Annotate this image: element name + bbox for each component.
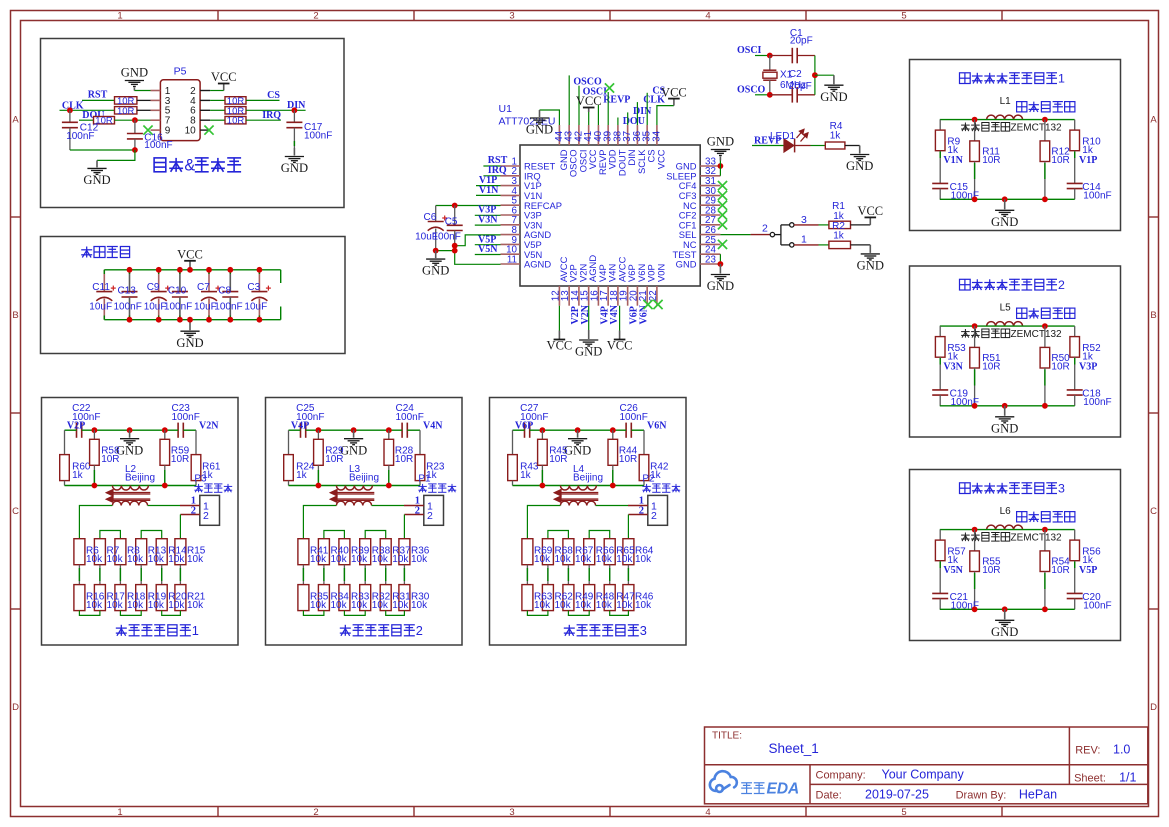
junction (top rail) [177,267,183,273]
resistor R30 10k body [399,585,410,611]
resistor R38 10k body [360,539,371,565]
svg-text:10k: 10k [86,554,103,565]
svg-text:9: 9 [165,126,171,137]
wire pin2 [210,90,224,92]
svg-text:1k: 1k [72,470,84,481]
svg-text:A: A [12,115,19,126]
block title 交流电流采样通道2 [960,279,971,290]
resistor R19 10k body [136,585,147,611]
U1 pin 41 (VCC) [588,125,590,145]
junction C5 top [452,203,458,209]
wire pin2 down [179,515,181,539]
svg-text:Drawn By:: Drawn By: [956,790,1007,802]
svg-text:GND: GND [575,345,602,359]
svg-text:GND: GND [83,173,110,187]
svg-text:GND: GND [707,134,734,148]
resistor R66 10k body [584,539,595,565]
svg-text:3: 3 [1058,482,1065,496]
svg-text:34: 34 [651,130,662,141]
resistor R60 1k [64,430,66,454]
svg-text:B: B [12,310,18,321]
wire bottom rail [104,319,280,321]
wire top link R4-R5 [589,531,610,539]
wire column 3 mid [119,565,121,585]
svg-text:ZEMCT132: ZEMCT132 [1011,122,1063,133]
U1 pin 14 (V2N) [578,286,580,306]
wire bottom link R3-R4 [568,611,589,616]
wire R1 to VCC [851,224,871,226]
resistor R61 1k [195,430,197,454]
wire column 6 mid [179,565,181,585]
junction bottom right [1042,606,1048,612]
svg-text:1: 1 [1058,72,1065,86]
svg-text:10uF: 10uF [89,302,112,313]
wire top link R4-R5 [141,531,162,539]
wire bottom link R5-R6 [162,611,181,616]
resistor R18 10k body [115,585,126,611]
no-connect pin21 [643,300,652,309]
resistor R20 10k body [156,585,167,611]
svg-text:V6N: V6N [647,421,667,432]
U1 pin 4 (V1N) [501,194,521,196]
resistor R68 10k body [542,539,553,565]
svg-text:Sheet:: Sheet: [1074,773,1106,785]
junction top left [972,323,978,329]
junction top 2 [351,427,357,433]
svg-text:V1N: V1N [943,155,963,166]
svg-text:GND: GND [564,443,591,457]
wire top link R4-R5 [365,531,386,539]
U1 pin 2 (IRQ) [501,175,521,177]
wire REVP pin40 [597,105,599,125]
capacitor C14 100nF [1067,182,1083,184]
wire C12/C16 ground rail [70,149,135,151]
wire bottom link R1-R2 [303,611,324,616]
resistor R40 10k body [318,539,329,565]
wire bottom link R5-R6 [386,611,405,616]
wire gnd link [436,250,455,252]
junction lower 1 [92,483,98,489]
U1 pin 3 (V1P) [501,185,521,187]
resistor R48 10k body [584,585,595,611]
svg-text:10k: 10k [148,554,165,565]
resistor R1 1k [829,221,851,228]
svg-text:P5: P5 [174,66,187,78]
svg-text:10k: 10k [372,600,389,611]
svg-text:10k: 10k [372,554,389,565]
svg-text:1/1: 1/1 [1119,771,1136,785]
wire RST stub [483,165,500,167]
wire secondary left [527,506,560,539]
svg-text:10k: 10k [555,554,572,565]
wire CLK [60,109,115,111]
wire column 1 mid [526,565,528,585]
resistor R15 10k body [175,539,186,565]
junction CLK/C12 [67,107,73,113]
wire column 4 mid [588,565,590,585]
resistor R33 10k body [339,585,350,611]
resistor R2 1k [829,241,851,248]
svg-text:V3P: V3P [1079,361,1097,372]
svg-text:10k: 10k [351,554,368,565]
U1 pin 18 (AVCC) [617,286,619,306]
resistor R21 10k body [175,585,186,611]
wire IRQ stub [483,175,500,177]
resistor R62 10k body [542,585,553,611]
U1 pin 23 (GND) [700,263,720,265]
label 电压输入 [418,484,426,492]
no-connect pin9 [143,126,152,135]
block outline: AC current channel 2 [910,266,1121,437]
U1 pin 37 (DIN) [627,125,629,145]
svg-text:10R: 10R [395,454,413,465]
no-connect pin28 [718,210,727,219]
resistor R9 1k [939,120,941,131]
svg-text:10k: 10k [86,600,103,611]
resistor R47 10k body [604,585,615,611]
wire right bracket top [280,270,282,283]
wire secondary right [596,505,628,507]
junction (gnd stub) [187,317,193,323]
junction (bottom rail) [257,317,263,323]
resistor R29 10R [317,430,319,439]
svg-text:10k: 10k [555,600,572,611]
junction bottom center [1002,403,1008,409]
svg-text:GND: GND [991,421,1018,435]
resistor R28 10R [388,430,390,439]
svg-text:22: 22 [648,290,659,301]
U1 pin 8 (AGND) [501,234,521,236]
wire bottom link R3-R4 [120,611,141,616]
ground (lower left) [96,160,98,167]
ground (channel 3) [1004,609,1006,619]
svg-text:10R: 10R [982,361,1000,372]
svg-text:DOU: DOU [623,116,645,127]
svg-text:10k: 10k [635,600,652,611]
svg-text:C: C [12,506,19,517]
wire bottom rail [940,405,1075,407]
wire RST [82,99,115,101]
wire AGND pin8 [455,235,501,246]
wire DIN pin37 [627,112,629,125]
svg-text:2: 2 [203,510,209,522]
wire jumper3 to R1 [794,224,819,226]
wire pin24 to pin23 [719,254,721,264]
ground (voltage channel 3) [577,430,579,438]
wire bottom link R5-R6 [610,611,629,616]
svg-text:Beijing: Beijing [349,472,379,483]
svg-text:V1N: V1N [479,185,499,196]
resistor 10R (CLK row) [115,107,137,114]
resistor R31 10k body [380,585,391,611]
U1 pin 21 (V0P) [646,286,648,306]
wire column 2 mid [99,565,101,585]
wire top link R2-R3 [324,531,345,539]
ground (U1 pin15) [588,330,590,339]
svg-text:5: 5 [901,807,906,818]
wire REVP to LED [752,145,784,147]
wire AVCC pin12 [558,306,560,331]
U1 pin 10 (V5N) [501,253,521,255]
svg-text:VCC: VCC [661,85,687,99]
svg-text:100nF: 100nF [214,302,242,313]
svg-text:V3N: V3N [943,361,963,372]
svg-text:HePan: HePan [1019,788,1057,802]
junction lower 2 [610,483,616,489]
junction (bottom rail) [177,317,183,323]
ground (voltage channel 2) [353,430,355,438]
svg-text:1: 1 [192,623,199,638]
resistor R10 1k [1074,120,1076,131]
wire column 2 mid [547,565,549,585]
svg-text:100nF: 100nF [144,140,172,151]
block outline: AC current channel 1 [910,60,1121,231]
svg-text:4: 4 [705,807,710,818]
wire top link R2-R3 [100,531,121,539]
resistor R14 10k body [156,539,167,565]
wire OSCO pin43 [568,75,570,125]
junction bottom right [1042,403,1048,409]
junction (bottom rail) [127,317,133,323]
wire DOU [79,119,94,121]
svg-text:IRQ: IRQ [262,110,281,121]
wire crystal right [814,56,816,95]
svg-text:10k: 10k [411,600,428,611]
wire V1P stub [476,185,501,187]
svg-text:20pF: 20pF [789,81,812,92]
resistor R4 1k [825,142,845,149]
svg-text:10k: 10k [392,600,409,611]
svg-text:C7: C7 [197,282,210,293]
svg-text:100nF: 100nF [66,131,94,142]
resistor R13 10k body [136,539,147,565]
svg-text:10k: 10k [331,554,348,565]
U1 pin 16 (V4P) [597,286,599,306]
wire bottom link R3-R4 [344,611,365,616]
wire DOUT pin38 [617,118,619,126]
wire OSCO [755,94,770,96]
svg-text:3: 3 [801,214,807,226]
resistor 10R (CS row) [210,99,225,101]
svg-text:GND: GND [991,215,1018,229]
svg-text:GND: GND [422,264,449,278]
svg-text:LED1: LED1 [770,131,795,142]
vcc (U1 pin12) [558,331,560,340]
svg-text:C3: C3 [247,282,260,293]
resistor R36 10k body [399,539,410,565]
junction top 2 [575,427,581,433]
svg-text:Sheet_1: Sheet_1 [769,741,819,756]
U1 pin 13 (V2P) [568,286,570,306]
wire column 2 mid [323,565,325,585]
wire V5N stub [475,254,501,256]
junction ground rail [132,147,138,153]
U1 pin 32 (SLEEP) [700,175,720,177]
svg-text:V5N: V5N [943,565,963,576]
ground (U1 pin44) [539,110,541,117]
junction pin23 [718,261,724,267]
svg-text:100nF: 100nF [114,302,142,313]
svg-text:10k: 10k [168,600,185,611]
resistor R44 10R [612,430,614,439]
resistor R49 10k body [563,585,574,611]
capacitor C15 100nF [932,182,948,184]
resistor R23 1k [419,430,421,454]
block outline: voltage channel 3 [490,398,687,646]
resistor 10R (DIN row) [210,109,225,111]
ground (C17) [293,148,295,156]
svg-text:10k: 10k [127,600,144,611]
wire V3P stub [475,214,501,216]
resistor R57 1k [939,530,941,541]
junction (top rail) [156,267,162,273]
svg-text:P3: P3 [194,474,207,485]
svg-text:V5N: V5N [478,244,498,255]
svg-text:VCC: VCC [607,339,633,353]
capacitor C12 [69,110,71,122]
svg-text:Your Company: Your Company [882,768,965,782]
svg-text:&: & [184,157,195,175]
U1 pin 26 (SEL) [700,234,720,236]
junction bottom center [1002,196,1008,202]
resistor R42 1k [643,430,645,454]
svg-text:GND: GND [857,259,884,273]
U1 pin 29 (NC) [700,204,720,206]
resistor R41 10k body [298,539,309,565]
svg-text:10k: 10k [310,554,327,565]
capacitor C2 20pF [770,94,793,96]
label 交流互感器 [1017,308,1027,318]
svg-text:10k: 10k [411,554,428,565]
junction (top rail) [206,267,212,273]
U1 pin 39 (VDD) [607,125,609,145]
U1 pin 42 (OSCI) [578,125,580,145]
ground (R2) [869,245,871,253]
svg-text:Company:: Company: [816,770,866,782]
svg-text:5: 5 [901,10,906,21]
U1 pin 12 (AVCC) [558,286,560,306]
wire jumper1 to R2 [794,244,819,246]
block outline: power decoupling [41,237,346,354]
capacitor C20 100nF [1067,592,1083,594]
svg-text:2019-07-25: 2019-07-25 [865,788,929,802]
wire REFCAP [436,205,501,207]
U1 pin 7 (V3N) [501,224,521,226]
resistor R37 10k body [380,539,391,565]
U1 pin 28 (CF2) [700,214,720,216]
svg-text:23: 23 [705,254,716,265]
svg-text:GND: GND [820,90,847,104]
svg-text:GND: GND [991,625,1018,639]
U1 pin 1 (RESET) [501,165,521,167]
svg-text:100nF: 100nF [304,131,332,142]
U1 pin 34 (VCC) [656,125,658,145]
wire R4 to gnd [845,145,860,147]
resistor R67 10k body [563,539,574,565]
svg-text:C8: C8 [218,286,231,297]
svg-text:V4N: V4N [423,421,443,432]
svg-text:Beijing: Beijing [125,472,155,483]
svg-text:REVP: REVP [603,95,630,106]
junction lower 1 [540,483,546,489]
wire lower rail [289,485,421,487]
svg-text:GND: GND [340,443,367,457]
svg-text:V4N: V4N [609,304,620,324]
svg-text:100nF: 100nF [1083,191,1111,202]
ground (C6/C5) [435,251,437,259]
svg-text:VCC: VCC [655,149,666,169]
svg-text:2: 2 [415,505,420,516]
U1 pin 19 (V6P) [627,286,629,306]
svg-text:2: 2 [1058,278,1065,292]
label 电压输入 [642,484,650,492]
svg-text:Beijing: Beijing [573,472,603,483]
resistor 10R (DOU row) [94,117,115,124]
svg-text:100nF: 100nF [164,302,192,313]
svg-text:C2: C2 [789,69,802,80]
svg-text:10R: 10R [171,454,189,465]
resistor R59 10R [164,430,166,439]
resistor R51 10R [974,326,976,347]
svg-text:U1: U1 [499,103,513,115]
wire pin44 GND [540,110,560,125]
no-connect pin27 [718,220,727,229]
svg-text:4: 4 [705,10,710,21]
ground (decoupling) [189,320,191,331]
U1 pin 43 (OSCO) [568,125,570,145]
wire top rail mid [82,429,178,431]
capacitor C3 [258,270,260,292]
junction gnd link [452,248,458,254]
svg-text:3: 3 [640,623,647,638]
wire lower rail [65,485,197,487]
wire SEL [720,234,750,236]
capacitor C7 [208,270,210,292]
label 电流互感器ZEMCT132 [961,533,970,542]
wire OSCI [755,55,770,57]
capacitor C1 20pF [770,55,793,57]
resistor R39 10k body [339,539,350,565]
svg-text:10k: 10k [187,554,204,565]
ground (channel 2) [1004,406,1006,416]
capacitor C11 [103,270,105,292]
svg-text:2: 2 [762,223,768,235]
svg-text:D: D [12,702,19,713]
svg-text:VCC: VCC [177,248,203,262]
svg-text:10k: 10k [168,554,185,565]
ground (U1 pin33) [719,157,721,161]
connector P2 [648,495,668,525]
junction top 2 [127,427,133,433]
wire top rail [940,529,1075,531]
junction top 1 [540,427,546,433]
wire RST to pin3 [137,99,151,101]
wire top rail mid [306,429,402,431]
block outline: AC current channel 3 [910,470,1121,641]
svg-text:11: 11 [507,254,517,265]
svg-text:100nF: 100nF [396,412,424,423]
junction C16 top [132,117,138,123]
junction (bottom rail) [156,317,162,323]
resistor R50 10R [1044,326,1046,347]
U1 pin 24 (TEST) [700,253,720,255]
svg-text:10k: 10k [635,554,652,565]
junction bottom left [972,196,978,202]
svg-text:100nF: 100nF [172,412,200,423]
junction (top rail) [127,267,133,273]
vcc (U1 pin34) [673,99,675,106]
junction (vcc stub) [187,267,193,273]
